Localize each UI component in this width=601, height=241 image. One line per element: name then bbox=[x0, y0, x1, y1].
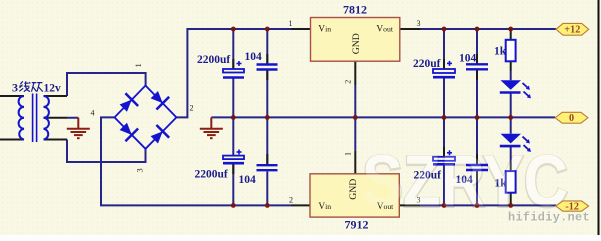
svg-text:GND: GND bbox=[348, 179, 359, 200]
svg-text:0: 0 bbox=[569, 113, 574, 124]
svg-text:2200uf: 2200uf bbox=[197, 54, 230, 66]
svg-text:1: 1 bbox=[133, 63, 143, 67]
svg-text:12v: 12v bbox=[44, 83, 62, 95]
svg-text:1: 1 bbox=[289, 19, 293, 28]
svg-text:3: 3 bbox=[12, 81, 18, 95]
svg-text:2: 2 bbox=[344, 80, 353, 84]
svg-text:2: 2 bbox=[289, 196, 293, 205]
svg-text:+12: +12 bbox=[564, 25, 580, 36]
svg-text:220uf: 220uf bbox=[413, 58, 441, 70]
svg-text:SZRYC: SZRYC bbox=[362, 142, 568, 222]
svg-text:4: 4 bbox=[91, 109, 95, 118]
svg-text:3: 3 bbox=[135, 168, 145, 172]
svg-text:Vin: Vin bbox=[318, 202, 331, 212]
svg-text:104: 104 bbox=[459, 53, 477, 65]
svg-text:hifidiy.net: hifidiy.net bbox=[508, 211, 590, 225]
svg-text:2200uf: 2200uf bbox=[195, 169, 228, 181]
svg-text:104: 104 bbox=[245, 51, 263, 63]
svg-text:3: 3 bbox=[417, 19, 421, 28]
svg-text:1k: 1k bbox=[494, 46, 507, 58]
svg-text:7812: 7812 bbox=[343, 3, 367, 17]
svg-text:GND: GND bbox=[351, 33, 362, 54]
svg-text:1: 1 bbox=[344, 152, 353, 156]
svg-text:Vin: Vin bbox=[318, 25, 331, 35]
svg-text:2: 2 bbox=[190, 104, 194, 113]
svg-text:Vout: Vout bbox=[376, 25, 393, 35]
svg-text:104: 104 bbox=[239, 174, 257, 186]
